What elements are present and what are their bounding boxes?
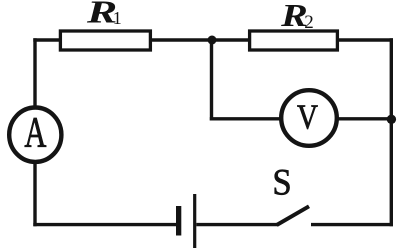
svg-text:S: S xyxy=(272,162,291,203)
node junction dot xyxy=(208,36,217,45)
resistor R1 xyxy=(60,31,150,50)
wire branch vertical from node xyxy=(210,40,213,121)
wire left vertical lower xyxy=(33,161,36,226)
svg-text:A: A xyxy=(24,110,46,157)
svg-text:V: V xyxy=(297,97,318,136)
svg-text:1: 1 xyxy=(113,8,122,28)
wire top-left horizontal xyxy=(33,38,60,41)
battery positive plate xyxy=(193,194,196,248)
wire battery to switch xyxy=(196,223,277,226)
wire left vertical upper xyxy=(33,38,36,108)
wire bottom left xyxy=(33,223,176,226)
switch S blade xyxy=(277,206,309,225)
wire R1 to node xyxy=(151,38,213,41)
wire node to R2 xyxy=(212,38,250,41)
wire branch horizontal to voltmeter xyxy=(210,117,282,120)
resistor R2 xyxy=(250,31,338,50)
wire switch to bottom-right corner xyxy=(311,223,393,226)
wire right vertical xyxy=(390,38,393,226)
svg-text:2: 2 xyxy=(304,12,314,33)
wire R2 to top-right corner xyxy=(338,38,394,41)
wire voltmeter to right vertical xyxy=(337,117,392,120)
battery negative plate xyxy=(176,206,181,236)
junction dot right xyxy=(387,115,396,124)
voltmeter U2 xyxy=(281,90,337,146)
ammeter U1 xyxy=(9,108,61,162)
